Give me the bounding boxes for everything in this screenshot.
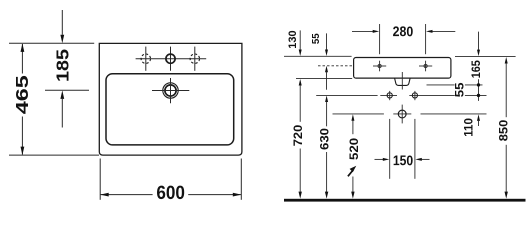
dim 150 extension line right	[414, 119, 416, 179]
side holes level line segment 1	[316, 94, 377, 96]
tap holes horizontal centerline	[136, 58, 207, 60]
center tap hole circle	[166, 54, 175, 63]
dim 850 line upper	[505, 63, 507, 117]
drain tab under basin	[395, 78, 411, 85]
chain line through dots	[478, 79, 480, 101]
chain dot at tab bottom level	[477, 83, 480, 86]
svg-text:130: 130	[287, 30, 299, 48]
overflow hole inner circle	[165, 85, 176, 96]
top extension line	[9, 42, 94, 44]
svg-text:520: 520	[347, 138, 361, 160]
dim 185 lower arrow head	[60, 90, 64, 99]
rim top extension line right	[455, 55, 516, 57]
dim 630 arrow head down (ground)	[325, 192, 328, 199]
dim 850 line lower	[505, 145, 507, 193]
dim 130 arrow head down	[299, 50, 302, 57]
drain level line segment 1	[333, 113, 384, 115]
dim 280 extension line left	[379, 24, 381, 54]
dim 630 line upper	[326, 102, 328, 127]
svg-text:185: 185	[52, 49, 72, 82]
dim 520 line upper	[352, 121, 354, 135]
dim 280 extension line right	[425, 24, 427, 54]
dim 465 line upper segment	[21, 44, 23, 74]
dim 720 line lower	[299, 149, 301, 194]
dim 110 arrow shaft below	[478, 121, 480, 126]
tap hole vertical centerline center	[170, 47, 172, 71]
dim 150 left arrow	[375, 158, 385, 160]
dim 720 line upper	[299, 85, 301, 122]
anti-fringe compositing helper (invisible)	[0, 0, 1, 1]
dim 55 arrow line down	[326, 33, 328, 50]
svg-text:150: 150	[393, 152, 414, 168]
overflow horizontal centerline	[152, 90, 189, 92]
fixing hole left crosshair	[373, 61, 386, 72]
side hole left vertical arm	[389, 91, 391, 100]
dim 600 extension line left	[99, 159, 101, 200]
overflow vertical centerline	[170, 78, 172, 103]
drain level line segment 2 (crosshair)	[393, 113, 411, 115]
svg-text:850: 850	[496, 119, 510, 141]
basin bottom extension line	[296, 78, 352, 80]
outer basin rect	[99, 43, 242, 155]
rim top extension line left	[284, 55, 352, 57]
left optional tap hole dashed circle	[141, 54, 150, 63]
dim 600 extension line right	[240, 159, 242, 200]
dim 850 arrow head down (ground)	[505, 192, 508, 199]
svg-text:280: 280	[393, 23, 414, 39]
dim 465 line lower segment	[21, 117, 23, 155]
right optional tap hole dashed circle	[190, 54, 199, 63]
dim 520 oblique break arrow	[348, 170, 354, 177]
fixing hole right crosshair	[419, 61, 432, 72]
dim 280 left arrow	[352, 30, 374, 32]
dim 600 arrow left	[100, 193, 109, 197]
drain level line segment 3	[421, 113, 487, 115]
ground line	[284, 199, 526, 202]
dim 130 arrow line down	[299, 30, 301, 50]
dim 720 arrow head down (ground)	[299, 192, 302, 199]
drain tab bottom extension line	[427, 84, 455, 86]
dim 520 arrow head up	[351, 114, 354, 121]
bottom extension line	[9, 154, 99, 156]
tap hole vertical centerline right	[194, 47, 196, 71]
basin center line through tab	[401, 72, 403, 90]
drain vertical centerline	[401, 105, 403, 124]
side hole right circle	[412, 93, 417, 98]
side holes level line segment 2	[380, 94, 397, 96]
svg-text:720: 720	[293, 125, 305, 147]
dim 110 arrow head up	[477, 114, 480, 121]
dim 150 extension line left	[389, 119, 391, 179]
svg-text:600: 600	[156, 183, 185, 204]
svg-text:465: 465	[12, 75, 32, 114]
svg-text:55: 55	[310, 33, 322, 44]
svg-text:165: 165	[469, 60, 483, 78]
side hole left circle	[387, 93, 392, 98]
dim 55 arrow head up (at dashed line)	[325, 66, 328, 73]
chain dot at side holes level	[477, 94, 480, 97]
dim 465 arrow up	[21, 43, 25, 52]
dim 185 upper arrow line	[61, 10, 63, 35]
inner basin bowl rounded rect	[106, 74, 234, 145]
dim 55 arrow head down	[325, 50, 328, 57]
dim 630 line lower	[326, 152, 328, 193]
dim 165 arrow line down	[478, 32, 480, 51]
dim 185 lower arrow line	[61, 99, 63, 128]
basin body front	[354, 58, 451, 79]
dim 600 arrow right	[233, 193, 242, 197]
dim 280 right arrow	[432, 30, 455, 32]
overflow hole outer circle	[163, 83, 178, 98]
side hole right vertical arm	[414, 91, 416, 100]
fixing holes dashed hidden line	[318, 65, 352, 67]
svg-text:630: 630	[318, 128, 332, 150]
dim 185 extension line at overflow level	[45, 89, 89, 91]
svg-text:55: 55	[453, 82, 467, 97]
dim 150 right arrow	[420, 158, 429, 160]
side holes level line segment 3	[409, 94, 455, 96]
dim 185 upper arrow head	[60, 35, 64, 44]
dim 720 arrow head up	[299, 79, 302, 86]
dim 600 line right segment	[188, 194, 241, 196]
tap hole vertical centerline left	[145, 47, 147, 71]
svg-text:110: 110	[462, 118, 476, 137]
dim 850 arrow head up	[505, 57, 508, 64]
dim 520 arrow head down (ground)	[351, 192, 354, 199]
drain circle	[398, 110, 406, 118]
dim 520 line lower	[352, 177, 354, 194]
dim 600 line left segment	[101, 194, 153, 196]
dim 630 arrow head up	[325, 96, 328, 103]
dim 55 arrow shaft below	[326, 72, 328, 90]
dim 465 arrow down	[21, 147, 25, 156]
dim 165 arrow head down	[477, 50, 480, 57]
